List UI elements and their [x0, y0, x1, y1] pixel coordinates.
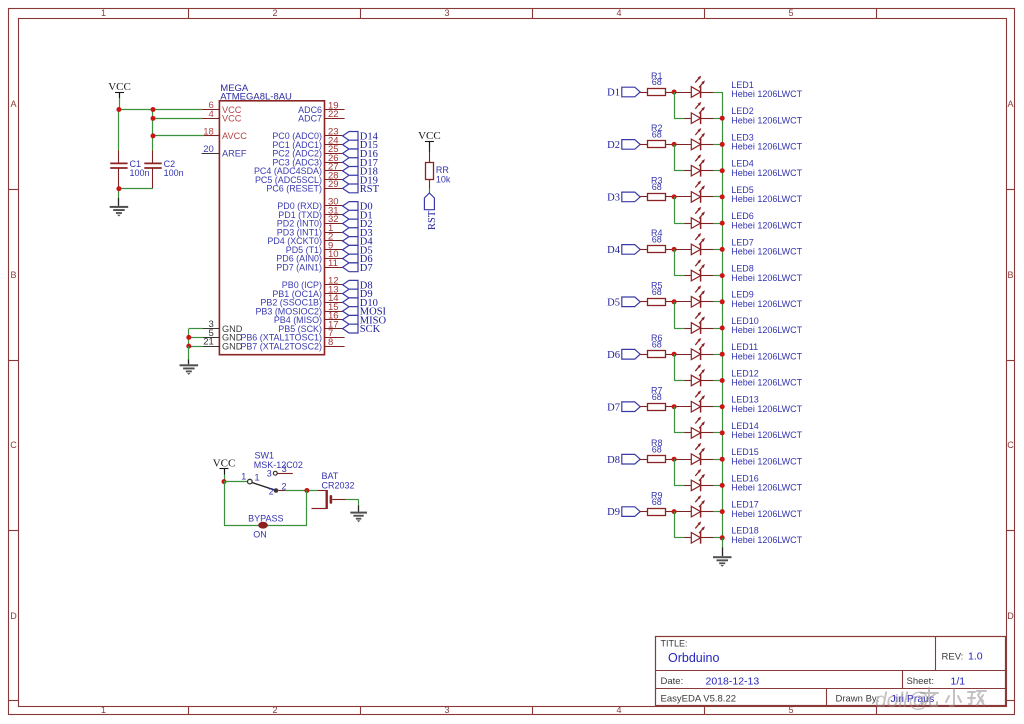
svg-text:20: 20: [203, 144, 214, 155]
svg-text:1: 1: [255, 472, 260, 482]
svg-text:10k: 10k: [436, 174, 451, 184]
svg-text:SCK: SCK: [360, 324, 381, 335]
svg-text:AREF: AREF: [222, 149, 247, 159]
svg-text:C: C: [1007, 440, 1014, 450]
svg-text:Hebei 1206LWCT: Hebei 1206LWCT: [731, 456, 802, 466]
svg-text:2018-12-13: 2018-12-13: [706, 675, 760, 687]
svg-text:D8: D8: [607, 455, 620, 466]
svg-text:Hebei 1206LWCT: Hebei 1206LWCT: [731, 220, 802, 230]
svg-text:3: 3: [444, 705, 449, 715]
svg-text:PC6 (RESET): PC6 (RESET): [266, 184, 322, 194]
svg-text:Hebei 1206LWCT: Hebei 1206LWCT: [731, 115, 802, 125]
svg-text:68: 68: [652, 392, 662, 402]
svg-text:68: 68: [652, 444, 662, 454]
svg-text:3: 3: [444, 8, 449, 18]
svg-text:Hebei 1206LWCT: Hebei 1206LWCT: [731, 509, 802, 519]
svg-text:BYPASS: BYPASS: [248, 514, 283, 524]
svg-text:5: 5: [788, 8, 793, 18]
svg-text:Hebei 1206LWCT: Hebei 1206LWCT: [731, 89, 802, 99]
svg-text:Hebei 1206LWCT: Hebei 1206LWCT: [731, 483, 802, 493]
svg-text:RST: RST: [360, 184, 380, 195]
svg-text:Hebei 1206LWCT: Hebei 1206LWCT: [731, 142, 802, 152]
svg-text:100n: 100n: [164, 168, 184, 178]
svg-text:SW1: SW1: [255, 451, 275, 461]
svg-text:Hebei 1206LWCT: Hebei 1206LWCT: [731, 404, 802, 414]
svg-text:1/1: 1/1: [951, 675, 966, 687]
svg-text:4: 4: [616, 8, 621, 18]
svg-text:Hebei 1206LWCT: Hebei 1206LWCT: [731, 247, 802, 257]
svg-text:68: 68: [652, 497, 662, 507]
svg-text:B: B: [10, 270, 16, 280]
svg-text:1: 1: [101, 8, 106, 18]
svg-text:1: 1: [101, 705, 106, 715]
svg-text:8: 8: [328, 337, 333, 348]
svg-text:BAT: BAT: [322, 471, 339, 481]
svg-text:Orbduino: Orbduino: [668, 651, 719, 665]
svg-text:4: 4: [616, 705, 621, 715]
svg-text:2: 2: [272, 8, 277, 18]
svg-text:D2: D2: [607, 140, 620, 151]
svg-text:D: D: [10, 611, 17, 621]
svg-text:D7: D7: [607, 402, 620, 413]
svg-text:AVCC: AVCC: [222, 131, 247, 141]
svg-text:2: 2: [282, 481, 287, 491]
svg-text:D1: D1: [607, 88, 620, 99]
svg-text:CR2032: CR2032: [322, 481, 355, 491]
svg-text:D7: D7: [360, 263, 373, 274]
svg-text:A: A: [1007, 99, 1013, 109]
svg-text:1.0: 1.0: [968, 651, 983, 663]
svg-text:Hebei 1206LWCT: Hebei 1206LWCT: [731, 351, 802, 361]
svg-text:MSK-12C02: MSK-12C02: [254, 460, 303, 470]
svg-text:5: 5: [788, 705, 793, 715]
svg-text:A: A: [10, 99, 16, 109]
svg-text:PD7 (AIN1): PD7 (AIN1): [276, 263, 322, 273]
svg-text:1: 1: [241, 472, 246, 482]
svg-text:D3: D3: [607, 193, 620, 204]
svg-text:ATMEGA8L-8AU: ATMEGA8L-8AU: [220, 92, 292, 103]
svg-text:RST: RST: [427, 210, 438, 230]
svg-text:Hebei 1206LWCT: Hebei 1206LWCT: [731, 325, 802, 335]
svg-text:D: D: [1007, 611, 1014, 621]
svg-text:22: 22: [328, 109, 339, 120]
svg-text:VCC: VCC: [213, 458, 236, 470]
svg-text:VCC: VCC: [418, 130, 441, 142]
svg-text:C: C: [10, 440, 17, 450]
svg-text:TITLE:: TITLE:: [661, 639, 688, 649]
svg-text:Hebei 1206LWCT: Hebei 1206LWCT: [731, 273, 802, 283]
svg-text:68: 68: [652, 235, 662, 245]
svg-text:D6: D6: [607, 350, 620, 361]
svg-text:Hebei 1206LWCT: Hebei 1206LWCT: [731, 378, 802, 388]
svg-text:EasyEDA V5.8.22: EasyEDA V5.8.22: [661, 694, 737, 705]
svg-text:Hebei 1206LWCT: Hebei 1206LWCT: [731, 430, 802, 440]
svg-text:11: 11: [328, 258, 338, 269]
svg-text:VCC: VCC: [222, 114, 242, 124]
svg-text:REV:: REV:: [942, 652, 964, 663]
svg-text:100n: 100n: [130, 168, 150, 178]
svg-text:VCC: VCC: [108, 81, 131, 93]
svg-text:68: 68: [652, 182, 662, 192]
svg-text:B: B: [1007, 270, 1013, 280]
svg-text:D4: D4: [607, 245, 621, 256]
svg-text:Hebei 1206LWCT: Hebei 1206LWCT: [731, 168, 802, 178]
svg-text:Hebei 1206LWCT: Hebei 1206LWCT: [731, 194, 802, 204]
svg-text:Hebei 1206LWCT: Hebei 1206LWCT: [731, 299, 802, 309]
svg-text:Date:: Date:: [661, 676, 684, 687]
svg-text:D9: D9: [607, 507, 620, 518]
svg-text:ON: ON: [253, 529, 267, 539]
svg-text:Drawn By:: Drawn By:: [836, 694, 880, 705]
svg-text:ADC7: ADC7: [298, 114, 322, 124]
svg-text:29: 29: [328, 179, 339, 190]
svg-text:68: 68: [652, 77, 662, 87]
svg-text:Sheet:: Sheet:: [907, 676, 934, 687]
svg-text:68: 68: [652, 130, 662, 140]
svg-text:68: 68: [652, 339, 662, 349]
svg-text:68: 68: [652, 287, 662, 297]
svg-text:Hebei 1206LWCT: Hebei 1206LWCT: [731, 535, 802, 545]
svg-text:D5: D5: [607, 297, 620, 308]
svg-text:2: 2: [272, 705, 277, 715]
svg-text:PB7 (XTAL2TOSC2): PB7 (XTAL2TOSC2): [240, 341, 322, 351]
svg-text:2: 2: [269, 486, 274, 496]
